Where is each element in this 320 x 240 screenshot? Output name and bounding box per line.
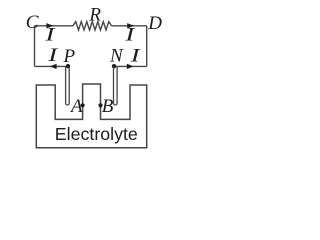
svg-text:I: I — [124, 23, 136, 44]
node P junction dot — [66, 64, 70, 68]
wire top left C to resistor — [35, 25, 74, 27]
resistor R — [73, 22, 112, 30]
svg-text:C: C — [26, 12, 39, 33]
svg-text:R: R — [88, 4, 101, 25]
node A dot — [81, 103, 85, 107]
electrode P plate loop — [66, 66, 70, 105]
node B dot — [98, 103, 102, 107]
svg-text:N: N — [109, 46, 124, 67]
svg-text:I: I — [130, 44, 142, 65]
svg-text:D: D — [147, 13, 162, 34]
wire right mid N to rail — [114, 65, 147, 67]
node N junction dot — [112, 64, 116, 68]
wire right rail — [146, 26, 148, 67]
svg-text:A: A — [69, 96, 83, 117]
arrow current I mid-left (points left) — [50, 64, 57, 69]
svg-text:I: I — [44, 23, 56, 44]
electrolyte vessel outline — [36, 84, 146, 148]
svg-text:P: P — [63, 46, 76, 67]
electrode N plate loop — [114, 66, 118, 105]
wire left rail — [34, 26, 36, 67]
wire left mid to P — [35, 65, 69, 67]
arrow current I top-right — [127, 23, 134, 28]
svg-text:I: I — [47, 44, 59, 65]
svg-text:B: B — [102, 96, 114, 117]
arrow current I top-left — [46, 23, 53, 28]
arrow current I mid-right (points right) — [127, 64, 134, 69]
wire resistor to D corner — [112, 25, 147, 27]
svg-text:Electrolyte: Electrolyte — [55, 124, 138, 144]
